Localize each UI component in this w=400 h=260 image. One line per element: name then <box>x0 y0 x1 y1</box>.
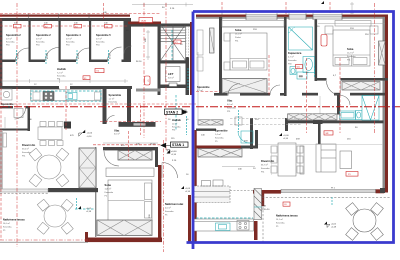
svg-text:+0,00: +0,00 <box>283 135 289 137</box>
svg-text:90 16: 90 16 <box>78 53 80 59</box>
svg-text:Keramika: Keramika <box>215 138 224 140</box>
svg-text:Spremište 2: Spremište 2 <box>36 33 51 37</box>
svg-text:13,1 m²: 13,1 m² <box>235 33 242 36</box>
svg-text:2,9 m²: 2,9 m² <box>96 38 102 41</box>
svg-text:3,6 m²: 3,6 m² <box>114 133 120 136</box>
svg-text:Keramika: Keramika <box>6 42 15 44</box>
svg-text:+0,00: +0,00 <box>181 110 187 112</box>
svg-text:Dnevni dio: Dnevni dio <box>22 143 36 147</box>
svg-text:Keramika: Keramika <box>22 152 31 154</box>
svg-text:STAN 1: STAN 1 <box>172 143 184 147</box>
svg-text:Keramika: Keramika <box>347 56 356 58</box>
svg-text:Natkrivena terasa: Natkrivena terasa <box>3 218 25 222</box>
svg-text:14,1 m²: 14,1 m² <box>276 218 283 221</box>
svg-text:Spremište 4: Spremište 4 <box>66 33 81 37</box>
svg-text:Keramika: Keramika <box>109 102 118 104</box>
svg-text:11,2 m²: 11,2 m² <box>347 52 354 55</box>
svg-text:36,7 m²: 36,7 m² <box>261 164 268 167</box>
svg-text:+0,00: +0,00 <box>87 133 93 135</box>
svg-text:Spremište 5: Spremište 5 <box>96 33 111 37</box>
svg-text:-0,18: -0,18 <box>331 227 337 229</box>
svg-text:Spremište: Spremište <box>1 102 14 106</box>
svg-text:-0,02: -0,02 <box>86 208 92 210</box>
svg-text:Hodnik: Hodnik <box>57 67 66 71</box>
svg-text:6,0 m²: 6,0 m² <box>227 103 233 106</box>
svg-text:11,8 m²: 11,8 m² <box>105 188 112 191</box>
svg-text:4,6 m²: 4,6 m² <box>165 207 171 210</box>
svg-text:Keramika: Keramika <box>36 42 45 44</box>
svg-text:14,0 m²: 14,0 m² <box>3 222 10 225</box>
svg-text:4,7 m²: 4,7 m² <box>197 89 203 92</box>
svg-text:26,16: 26,16 <box>150 144 156 146</box>
svg-text:Spremište: Spremište <box>215 129 228 133</box>
svg-text:V5: V5 <box>148 79 150 81</box>
svg-text:Keramika: Keramika <box>172 127 181 129</box>
svg-text:Keramika: Keramika <box>3 227 12 229</box>
svg-text:Hodnik: Hodnik <box>172 118 181 122</box>
svg-text:Keramika: Keramika <box>276 223 285 225</box>
svg-text:Parket: Parket <box>235 36 241 39</box>
svg-text:Soba: Soba <box>105 183 112 187</box>
svg-text:STAN 2: STAN 2 <box>166 110 178 114</box>
svg-text:-0,16: -0,16 <box>87 136 93 138</box>
svg-text:35,6 m²: 35,6 m² <box>22 148 29 151</box>
svg-text:Keramika: Keramika <box>261 168 270 170</box>
svg-text:1,9 m²: 1,9 m² <box>1 106 7 109</box>
svg-text:2,9 m²: 2,9 m² <box>6 38 12 41</box>
svg-text:Ulaz: Ulaz <box>227 99 233 103</box>
svg-text:14B: 14B <box>262 206 266 208</box>
svg-text:3,8 m²: 3,8 m² <box>168 77 174 80</box>
svg-text:Soba: Soba <box>235 28 242 32</box>
svg-text:Natkriveni ulaz: Natkriveni ulaz <box>165 202 184 206</box>
svg-text:Spremište: Spremište <box>109 93 122 97</box>
svg-text:90 16: 90 16 <box>110 53 112 59</box>
svg-text:Keramika: Keramika <box>66 42 75 44</box>
svg-text:Spremište: Spremište <box>197 85 210 89</box>
svg-text:12 m²: 12 m² <box>172 123 177 126</box>
svg-text:Keramika: Keramika <box>105 192 114 194</box>
svg-text:2,9 m²: 2,9 m² <box>66 38 72 41</box>
svg-text:228+20: 228+20 <box>262 209 270 211</box>
svg-text:Keramika: Keramika <box>165 211 174 213</box>
svg-text:-0,16: -0,16 <box>181 113 187 115</box>
svg-text:-0,18: -0,18 <box>86 211 92 213</box>
svg-text:90 16: 90 16 <box>47 53 49 59</box>
svg-text:Ulaz: Ulaz <box>114 129 120 133</box>
svg-text:Keramika: Keramika <box>288 60 297 62</box>
svg-text:-0,16: -0,16 <box>283 138 289 140</box>
svg-text:±0,00: ±0,00 <box>171 151 177 153</box>
svg-text:Natkrivena terasa: Natkrivena terasa <box>276 214 298 218</box>
svg-text:2,9 m²: 2,9 m² <box>36 38 42 41</box>
svg-text:Soba: Soba <box>347 47 354 51</box>
svg-text:Keramika: Keramika <box>57 76 66 78</box>
svg-text:1,2 m²: 1,2 m² <box>109 98 115 101</box>
svg-text:-0,02: -0,02 <box>331 224 337 226</box>
svg-text:-0,03: -0,03 <box>185 188 191 190</box>
svg-text:Kupaonica: Kupaonica <box>288 51 302 55</box>
svg-text:7,2 m²: 7,2 m² <box>57 72 63 75</box>
svg-text:96 16: 96 16 <box>136 61 142 63</box>
svg-text:1,4 m²: 1,4 m² <box>215 133 221 136</box>
svg-text:-0,16: -0,16 <box>171 154 177 156</box>
svg-text:LIFT: LIFT <box>168 72 174 76</box>
svg-text:-0,16: -0,16 <box>185 191 191 193</box>
svg-text:90 16: 90 16 <box>18 53 20 59</box>
svg-text:4,7 m²: 4,7 m² <box>288 56 294 59</box>
svg-text:Dnevni dio: Dnevni dio <box>261 159 275 163</box>
svg-text:Keramika: Keramika <box>96 42 105 44</box>
svg-text:Spremišta 2: Spremišta 2 <box>6 33 21 37</box>
svg-text:Keramika: Keramika <box>227 108 236 110</box>
svg-text:ULAZ: ULAZ <box>141 20 147 23</box>
